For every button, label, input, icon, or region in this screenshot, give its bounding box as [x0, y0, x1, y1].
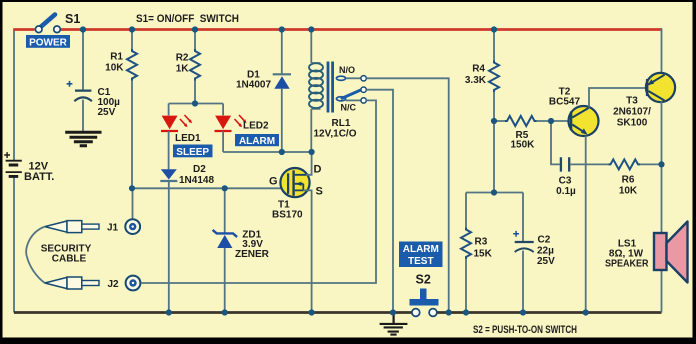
- svg-text:LED1: LED1: [175, 133, 201, 144]
- svg-text:150K: 150K: [511, 140, 536, 151]
- svg-text:S2: S2: [416, 273, 431, 287]
- svg-text:10K: 10K: [619, 186, 638, 197]
- LED2: [215, 115, 270, 132]
- svg-text:22µ: 22µ: [537, 246, 554, 257]
- svg-text:T3: T3: [626, 96, 638, 107]
- resistor R1: [105, 30, 137, 189]
- transistor T2 BC547: [549, 87, 599, 137]
- junction dots top rail: [80, 26, 497, 32]
- svg-text:D: D: [314, 164, 322, 176]
- svg-text:25V: 25V: [98, 107, 116, 118]
- label SLEEP: [173, 145, 213, 158]
- wire gate line: [132, 187, 288, 189]
- svg-text:C2: C2: [538, 235, 551, 246]
- svg-text:ALARM: ALARM: [239, 136, 275, 147]
- diode D1 1N4007: [236, 30, 291, 153]
- battery BATT 12V: [4, 152, 54, 183]
- wire T2 base down to C3: [551, 121, 560, 164]
- svg-text:R3: R3: [475, 237, 488, 248]
- wire bottom ground rail: [14, 311, 662, 314]
- wire D2 to bottom rail: [168, 181, 170, 313]
- svg-text:BC547: BC547: [549, 97, 581, 108]
- wire led feed bar: [169, 104, 224, 116]
- svg-text:1N4007: 1N4007: [236, 80, 271, 91]
- resistor R3: [461, 193, 493, 313]
- resistor R6: [609, 159, 662, 196]
- jack J1: [45, 219, 140, 234]
- switch S2 push button: [410, 273, 439, 317]
- svg-text:R6: R6: [622, 175, 635, 186]
- svg-text:LED2: LED2: [243, 121, 269, 132]
- wire LED2 down and drain row: [223, 131, 312, 152]
- svg-text:N/C: N/C: [341, 103, 357, 113]
- switch S1: [35, 12, 80, 33]
- wire pole to ground: [366, 90, 393, 313]
- wire left vertical from rail to battery and battery to bottom rail: [13, 30, 15, 313]
- svg-text:SLEEP: SLEEP: [176, 147, 209, 158]
- wire right drop from rail to T3 emitter: [661, 28, 663, 74]
- relay contacts: [336, 65, 366, 113]
- svg-text:R4: R4: [472, 64, 485, 75]
- jack J2: [45, 276, 141, 291]
- svg-text:J2: J2: [108, 279, 120, 290]
- svg-text:N/O: N/O: [339, 65, 355, 75]
- relay RL1 coil: [309, 30, 357, 153]
- mosfet T1 BS170: [269, 164, 323, 221]
- svg-text:POWER: POWER: [29, 37, 68, 48]
- svg-text:2N6107/: 2N6107/: [613, 107, 651, 118]
- resistor R2: [176, 30, 200, 104]
- svg-text:J1: J1: [107, 223, 119, 234]
- svg-text:S2 = PUSH-TO-ON SWITCH: S2 = PUSH-TO-ON SWITCH: [473, 324, 577, 336]
- svg-text:0.1µ: 0.1µ: [556, 186, 576, 197]
- svg-text:1K: 1K: [176, 64, 190, 75]
- ground under C1: [65, 132, 101, 146]
- junction dots bottom rail: [166, 309, 589, 315]
- wire T1 drain: [306, 152, 312, 175]
- wire N/C to J2: [142, 100, 377, 283]
- svg-text:SPEAKER: SPEAKER: [605, 259, 649, 270]
- svg-text:3.3K: 3.3K: [465, 75, 487, 86]
- svg-text:BATT.: BATT.: [24, 171, 54, 183]
- wire N/O to bottom rail: [366, 78, 448, 312]
- svg-text:S1: S1: [65, 12, 80, 26]
- svg-text:1N4148: 1N4148: [179, 175, 214, 186]
- capacitor C2: [513, 193, 555, 313]
- security cable: [26, 227, 45, 283]
- junction dots middle: [129, 100, 665, 195]
- wire T2 emitter to rail: [585, 136, 587, 313]
- svg-text:BS170: BS170: [272, 210, 303, 221]
- svg-text:R1: R1: [110, 52, 123, 63]
- wire J1 drop: [132, 188, 134, 219]
- wire T3 collector column: [661, 101, 663, 233]
- speaker LS1: [605, 222, 688, 283]
- svg-text:10K: 10K: [105, 63, 124, 74]
- svg-text:12V,1C/O: 12V,1C/O: [314, 129, 357, 140]
- LED1: [161, 115, 201, 144]
- svg-text:25V: 25V: [537, 256, 555, 267]
- capacitor C1: [67, 30, 121, 132]
- wire LED1 to D2: [168, 131, 170, 169]
- label POWER: [26, 35, 70, 48]
- zener ZD1: [213, 188, 270, 312]
- svg-text:15K: 15K: [474, 249, 493, 260]
- svg-text:TEST: TEST: [408, 256, 434, 267]
- svg-text:C3: C3: [559, 175, 572, 186]
- svg-text:D2: D2: [193, 164, 206, 175]
- wire top red rail: [13, 28, 662, 31]
- svg-text:SK100: SK100: [617, 118, 648, 129]
- transistor T3 2N6107: [613, 73, 675, 129]
- label ALARM TEST: [399, 242, 443, 268]
- svg-text:ALARM: ALARM: [403, 244, 439, 255]
- wire R3 C2 top bar: [466, 192, 523, 194]
- label ALARM: [235, 134, 279, 147]
- svg-text:S1= ON/OFF SWITCH: S1= ON/OFF SWITCH: [136, 13, 239, 25]
- capacitor C3: [556, 157, 608, 197]
- wire T1 source to rail: [303, 190, 311, 312]
- svg-text:G: G: [269, 176, 278, 188]
- ground at relay pole: [393, 313, 395, 323]
- svg-text:ZENER: ZENER: [235, 249, 270, 260]
- svg-text:R2: R2: [176, 53, 189, 64]
- svg-text:CABLE: CABLE: [52, 254, 87, 265]
- resistor R4: [465, 30, 499, 193]
- wire T2 collector to T3 base: [589, 88, 646, 108]
- resistor R5: [494, 116, 570, 151]
- svg-text:S: S: [316, 186, 323, 198]
- diode D2 1N4148: [160, 164, 214, 186]
- svg-text:RL1: RL1: [332, 118, 351, 129]
